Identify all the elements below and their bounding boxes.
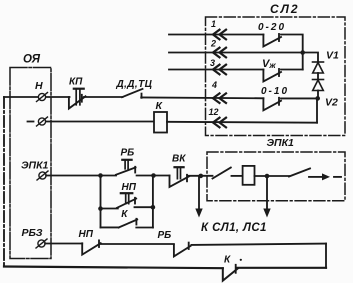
svg-text:РБ: РБ — [121, 148, 135, 159]
diode V1 — [313, 62, 324, 73]
svg-text:Vж: Vж — [262, 58, 276, 70]
wire — [191, 244, 326, 245]
node (junction dot pin2/diodes) — [300, 50, 305, 55]
wire NP branch right — [135, 206, 154, 208]
wire row2 (minus wire) — [46, 121, 154, 123]
pushbutton NP (EPK row) — [117, 193, 136, 208]
svg-text:ВК: ВК — [172, 154, 186, 165]
switch 0-10 — [263, 98, 281, 111]
wire NP branch left — [101, 208, 118, 210]
svg-text:V2: V2 — [325, 97, 338, 109]
connector chevron pin3 — [213, 65, 226, 75]
wire left parallel riser — [100, 176, 102, 228]
wire K branch right — [136, 227, 153, 229]
svg-text:Д,Д,ТЦ: Д,Д,ТЦ — [116, 79, 153, 90]
node — [265, 174, 270, 179]
node (junction diode bottom / pin4 / pin12) — [315, 96, 320, 101]
node — [151, 173, 156, 178]
wire diode bottom — [317, 91, 319, 99]
connector chevron pin1 — [213, 30, 226, 40]
svg-text:0-10: 0-10 — [261, 86, 289, 97]
terminal RBZ — [36, 239, 47, 248]
wire (right riser of RB/K loop) — [325, 244, 327, 268]
terminal N — [37, 93, 48, 102]
node — [199, 174, 204, 179]
wire bus to Vzh output — [302, 53, 304, 70]
terminal minus — [28, 117, 48, 126]
contact K (bottom loop) — [223, 265, 238, 281]
wire pin3 — [169, 69, 263, 71]
svg-text:0-20: 0-20 — [258, 22, 286, 33]
wire — [232, 175, 243, 177]
wire (bottom bus right of K contact) — [238, 267, 326, 269]
switch 0-10 output wire — [281, 97, 318, 99]
wire diode branch top — [303, 53, 318, 63]
wire — [137, 175, 170, 177]
svg-text:Н: Н — [35, 80, 43, 92]
switch Vzh — [263, 69, 281, 82]
pushbutton VK — [170, 167, 190, 187]
svg-text:К: К — [121, 209, 128, 220]
wire pin12 riser to diode bottom — [316, 98, 318, 122]
pushbutton KP — [69, 89, 86, 109]
diode V2 — [313, 80, 324, 91]
contact EPK1-A — [213, 168, 231, 179]
wire — [84, 96, 123, 98]
svg-text:НП: НП — [79, 229, 94, 240]
wire 0-20 output corner — [281, 35, 303, 53]
wire between diodes — [317, 73, 319, 80]
svg-text:К: К — [224, 255, 231, 266]
contact NP (RBZ row) — [82, 240, 101, 254]
arrow (continuation right) — [309, 173, 330, 180]
svg-text:12: 12 — [209, 107, 219, 117]
wire dashed continuation — [334, 176, 341, 178]
relay coil EPK1 — [243, 166, 255, 185]
wire — [101, 243, 174, 245]
box OYA (dash-dot) — [10, 68, 51, 259]
wire row1 (N wire) — [4, 96, 70, 98]
svg-text:РБЗ: РБЗ — [22, 227, 43, 239]
wire RBZ row — [45, 243, 82, 245]
connector chevron pin2 — [213, 48, 226, 58]
arrow down to SL1 — [195, 176, 202, 218]
node — [151, 205, 156, 210]
svg-text:СЛ2: СЛ2 — [270, 2, 300, 16]
terminal EPK1 — [37, 171, 48, 180]
wire pin12 — [167, 121, 317, 124]
node — [98, 206, 103, 211]
connector chevron pin12 — [213, 118, 226, 128]
svg-text:2: 2 — [210, 39, 216, 49]
svg-text:РБ: РБ — [158, 230, 172, 241]
svg-text:4: 4 — [211, 80, 217, 90]
contact EPK1-B — [289, 169, 310, 177]
svg-text:КП: КП — [69, 77, 83, 88]
svg-text:К СЛ1, ЛС1: К СЛ1, ЛС1 — [201, 222, 267, 234]
node — [98, 173, 103, 178]
svg-text:ЭПК1: ЭПК1 — [21, 160, 49, 172]
wire pin1 — [169, 34, 263, 36]
wire — [188, 175, 212, 177]
switch 0-20 — [263, 34, 281, 47]
block EPK1 (dash-dot box) — [207, 152, 345, 201]
wire K branch left — [101, 226, 119, 228]
wire EPK1 row from terminal — [46, 175, 116, 177]
relay coil K — [154, 112, 167, 133]
svg-text:НП: НП — [122, 182, 137, 193]
svg-text:V1: V1 — [326, 50, 339, 62]
pushbutton RB (EPK row) — [116, 160, 136, 175]
bottom bus wire (left of K contact) — [4, 267, 223, 269]
arrow down to LS1 — [263, 176, 270, 218]
label dot after K — [240, 259, 242, 261]
wire pin2 — [169, 52, 303, 54]
connector chevron pin4 — [213, 93, 226, 103]
wire right parallel riser — [152, 176, 154, 228]
svg-text:1: 1 — [211, 19, 216, 29]
svg-text:ОЯ: ОЯ — [23, 54, 41, 66]
svg-text:3: 3 — [210, 58, 215, 68]
wire row1 to SL2 pin4 — [141, 96, 263, 99]
wire — [255, 175, 290, 177]
contact RB (RBZ row) — [174, 243, 191, 257]
svg-text:ЭПК1: ЭПК1 — [267, 137, 295, 149]
cab boundary (dash-dot left edge) — [3, 97, 5, 266]
contact K (EPK row) — [119, 219, 138, 228]
block SL2 (dash-dot box) — [206, 17, 346, 136]
contact DDTC — [122, 89, 143, 98]
wire Vzh output — [281, 69, 303, 71]
